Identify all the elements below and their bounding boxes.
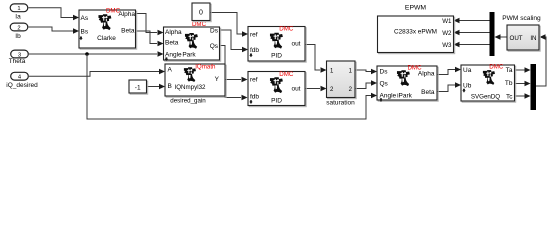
svg-text:2: 2: [17, 25, 20, 31]
svg-text:Ia: Ia: [15, 14, 21, 21]
svg-text:ref: ref: [250, 76, 258, 83]
svg-text:IQNmpyl32: IQNmpyl32: [175, 84, 207, 91]
svg-text:Ds: Ds: [210, 28, 219, 35]
svg-text:PWM scaling: PWM scaling: [502, 15, 541, 22]
svg-text:Tc: Tc: [506, 93, 513, 100]
svg-text:Park: Park: [182, 51, 196, 58]
svg-text:Qs: Qs: [380, 81, 389, 88]
svg-text:Ta: Ta: [506, 67, 513, 74]
svg-text:Alpha: Alpha: [118, 11, 135, 18]
svg-text:Tb: Tb: [505, 80, 513, 87]
svg-text:0: 0: [199, 10, 203, 17]
svg-text:desired_gain: desired_gain: [170, 98, 206, 105]
svg-text:DMC: DMC: [279, 26, 294, 33]
svg-text:Alpha: Alpha: [165, 29, 182, 36]
svg-text:DMC: DMC: [279, 71, 294, 78]
svg-text:W2: W2: [442, 30, 452, 37]
svg-text:SVGenDQ: SVGenDQ: [471, 93, 500, 100]
svg-text:A: A: [168, 67, 173, 74]
svg-text:Y: Y: [215, 76, 220, 83]
svg-text:Clarke: Clarke: [97, 35, 116, 42]
svg-text:Ub: Ub: [463, 83, 472, 90]
svg-text:fdb: fdb: [250, 47, 259, 54]
svg-text:Angle: Angle: [380, 93, 397, 100]
svg-text:Alpha: Alpha: [418, 71, 435, 78]
svg-text:-1: -1: [135, 84, 141, 91]
svg-text:DMC: DMC: [489, 63, 504, 70]
svg-text:As: As: [81, 15, 89, 22]
svg-text:Beta: Beta: [421, 89, 435, 96]
svg-text:B: B: [168, 83, 172, 90]
svg-text:Qs: Qs: [210, 43, 219, 50]
svg-text:Angle: Angle: [165, 51, 182, 58]
svg-text:Theta: Theta: [9, 58, 26, 65]
svg-text:OUT: OUT: [510, 35, 523, 42]
svg-text:DMC: DMC: [192, 21, 207, 28]
svg-text:W1: W1: [442, 18, 452, 25]
svg-text:iQ_desired: iQ_desired: [6, 82, 38, 89]
svg-text:out: out: [291, 86, 300, 93]
svg-text:Ib: Ib: [15, 33, 21, 40]
svg-text:PID: PID: [271, 98, 282, 105]
svg-text:fdb: fdb: [250, 94, 259, 101]
svg-text:out: out: [291, 40, 300, 47]
svg-text:Ua: Ua: [463, 67, 472, 74]
svg-text:Ds: Ds: [380, 68, 389, 75]
svg-text:1: 1: [17, 6, 20, 12]
svg-text:Bs: Bs: [81, 29, 89, 36]
svg-text:IQmath: IQmath: [195, 64, 216, 71]
svg-text:IN: IN: [530, 35, 536, 42]
svg-text:C2833x ePWM: C2833x ePWM: [394, 29, 437, 36]
svg-text:iPark: iPark: [397, 93, 413, 100]
svg-text:W3: W3: [442, 42, 452, 49]
svg-text:EPWM: EPWM: [405, 5, 426, 12]
svg-text:Beta: Beta: [121, 28, 135, 35]
svg-text:ref: ref: [250, 32, 258, 39]
svg-text:Beta: Beta: [165, 40, 179, 47]
svg-text:PID: PID: [271, 53, 282, 60]
svg-text:saturation: saturation: [326, 100, 355, 107]
